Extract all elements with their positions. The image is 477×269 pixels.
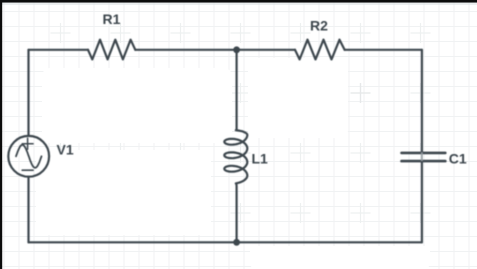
V1 plus sign [22, 138, 33, 149]
capacitor C1 bottom plate [402, 160, 446, 163]
left black bar [0, 0, 2, 269]
right wire upper [421, 50, 423, 152]
middle wire lower [235, 183, 238, 242]
svg-text:L1: L1 [252, 150, 269, 166]
V1 sine wave [16, 145, 42, 168]
svg-text:R1: R1 [103, 11, 121, 27]
node top junction dot [233, 46, 240, 53]
white blotches [36, 58, 430, 269]
svg-text:C1: C1 [449, 151, 467, 167]
right wire lower [421, 162, 423, 242]
wire between R1 and node [135, 49, 236, 51]
left wire below V1 [27, 177, 29, 243]
resistor R1 [88, 40, 135, 60]
middle wire upper [236, 50, 238, 130]
top black bar [0, 0, 477, 3]
bottom wire [29, 241, 422, 243]
V1 minus sign [22, 169, 33, 171]
wire R2 to top-right corner [345, 49, 422, 51]
wire node to R2 [237, 49, 295, 51]
voltage source V1 circle [8, 136, 49, 177]
svg-text:R2: R2 [310, 18, 328, 34]
faint wire between plates [421, 153, 423, 161]
resistor R2 [295, 40, 345, 60]
wire top-left segment [29, 49, 89, 51]
inductor L1 coil [224, 130, 247, 183]
left wire down to V1 [27, 50, 29, 136]
svg-text:V1: V1 [57, 142, 74, 158]
node bottom junction dot [233, 239, 240, 246]
capacitor C1 top plate [402, 152, 446, 155]
